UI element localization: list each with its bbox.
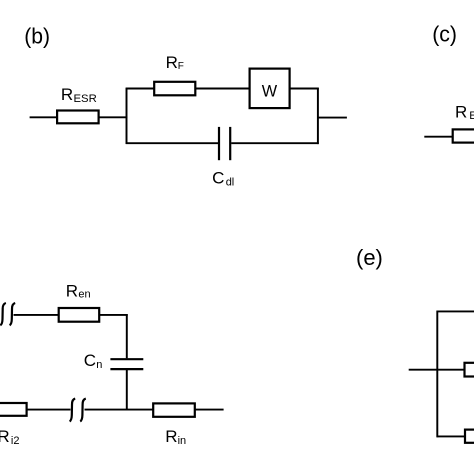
wire break symbol left of R_en	[0, 303, 6, 325]
resistor on bottom branch (e), clipped at right edge	[465, 430, 474, 443]
svg-text:in: in	[178, 435, 187, 447]
resistor R_en	[59, 308, 99, 322]
wire R_F to W (b)	[195, 88, 249, 90]
wire input left (b)	[30, 116, 57, 118]
svg-text:R: R	[61, 85, 73, 104]
svg-text:R: R	[66, 281, 78, 300]
wire middle branch (e)	[438, 369, 465, 371]
svg-text:(b): (b)	[24, 23, 50, 48]
wire W to right vertical (b)	[290, 88, 319, 90]
resistor R_F	[154, 82, 195, 96]
wire output right (b)	[318, 117, 347, 119]
svg-text:R: R	[165, 427, 177, 446]
capacitor C_n bottom plate	[110, 368, 143, 370]
svg-text:(c): (c)	[432, 21, 457, 46]
svg-text:F: F	[178, 61, 184, 72]
wire break to R_in through junction	[85, 409, 155, 411]
svg-text:R: R	[166, 53, 178, 72]
wire input left (c)	[424, 136, 453, 138]
svg-text:R: R	[0, 427, 10, 446]
wire R_ESR to node (b)	[99, 116, 128, 118]
wire input left (e)	[409, 369, 439, 371]
svg-text:W: W	[262, 82, 278, 100]
svg-text:i2: i2	[11, 435, 20, 447]
Warburg element W box	[250, 69, 290, 109]
resistor R_i2, clipped at left edge	[0, 403, 27, 416]
svg-text:R: R	[455, 103, 467, 122]
wire top branch left (b)	[126, 88, 154, 90]
svg-text:C: C	[212, 169, 224, 188]
wire bottom branch left (b)	[126, 142, 218, 144]
capacitor C_n top plate	[110, 358, 143, 360]
svg-text:dl: dl	[226, 177, 235, 189]
resistor on middle branch (e), clipped at right edge	[465, 363, 474, 377]
svg-text:ESR: ESR	[469, 110, 474, 122]
wire break to R_en	[14, 314, 59, 316]
wire vertical bus (e)	[436, 311, 438, 438]
wire top branch (e)	[437, 310, 474, 312]
svg-text:C: C	[84, 351, 96, 370]
resistor R_in	[153, 403, 195, 416]
wire vertical upper segment	[126, 314, 128, 358]
capacitor C_dl left plate	[218, 127, 220, 160]
wire R_i2 to break	[27, 409, 71, 411]
wire bottom branch (e)	[437, 435, 466, 437]
svg-text:n: n	[96, 359, 102, 371]
wire left vertical of parallel section (b)	[126, 88, 128, 144]
wire break symbol on bottom row	[70, 399, 76, 422]
wire right vertical of parallel section (b)	[317, 88, 319, 144]
wire vertical lower segment	[126, 370, 128, 410]
wire output right of R_in	[195, 409, 224, 411]
resistor R_ESR of panel (c), clipped at right edge	[453, 129, 474, 142]
wire R_en to corner	[99, 314, 128, 316]
svg-text:ESR: ESR	[74, 93, 97, 105]
wire bottom branch right (b)	[231, 142, 319, 144]
svg-text:en: en	[78, 289, 90, 301]
svg-text:(e): (e)	[356, 245, 383, 270]
resistor R_ESR	[57, 111, 99, 124]
capacitor C_dl right plate	[229, 127, 231, 160]
